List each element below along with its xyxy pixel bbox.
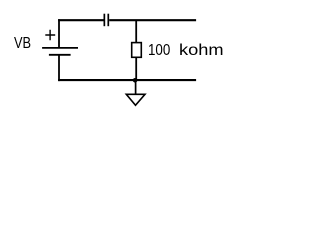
wire ground stem [135, 80, 137, 94]
label 100 (resistor value number) [148, 42, 170, 60]
wire top rail left segment (corner to capacitor left plate) [58, 19, 103, 21]
wire resistor top stem (from top rail down to resistor) [135, 20, 137, 42]
label VB (battery voltage) [14, 35, 31, 53]
label kohm (resistor value unit) [179, 42, 224, 60]
battery VB positive plate (long) [42, 47, 78, 49]
node junction dot (resistor / ground / bottom rail) [133, 78, 138, 83]
wire battery negative terminal down to bottom rail [58, 55, 60, 81]
resistor R1 body (box symbol, 100 kohm) [132, 43, 142, 58]
wire resistor bottom stem (resistor down to bottom rail) [135, 57, 137, 80]
wire bottom rail (battery to open right end) [58, 79, 196, 81]
wire top-left vertical (battery + terminal up to top rail) [58, 19, 60, 48]
battery VB negative plate (short) [49, 54, 71, 56]
wire top rail right segment (capacitor to open right end) [109, 19, 196, 21]
battery plus sign [45, 30, 55, 40]
capacitor right plate [107, 14, 109, 27]
ground symbol (open triangle) [126, 94, 145, 105]
capacitor left plate [103, 14, 105, 27]
